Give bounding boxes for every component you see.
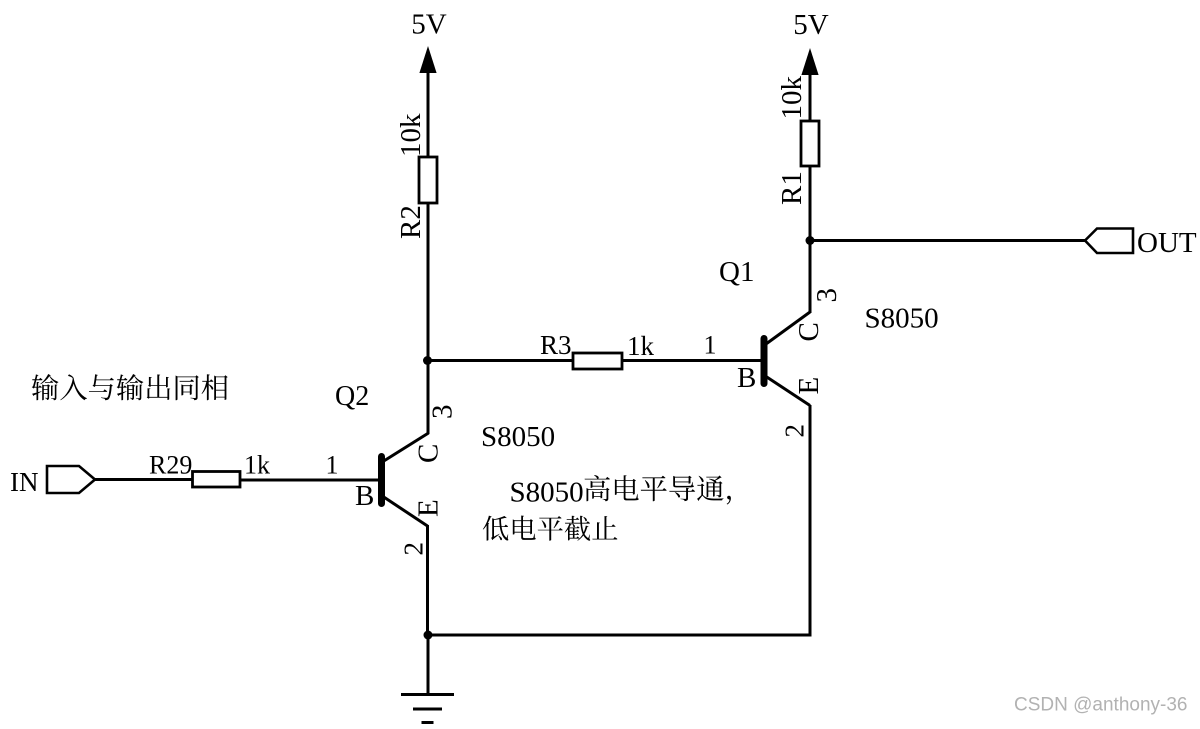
svg-text:R29: R29 <box>149 451 192 480</box>
svg-text:3: 3 <box>427 405 459 420</box>
svg-text:IN: IN <box>10 467 39 497</box>
svg-text:C: C <box>793 322 825 341</box>
svg-text:E: E <box>413 499 445 517</box>
svg-text:1: 1 <box>326 451 339 480</box>
svg-text:1k: 1k <box>627 331 655 361</box>
svg-text:5V: 5V <box>793 9 829 41</box>
svg-text:10k: 10k <box>776 76 808 120</box>
svg-text:S8050: S8050 <box>481 421 555 453</box>
svg-text:2: 2 <box>399 542 429 556</box>
svg-text:5V: 5V <box>411 9 447 41</box>
svg-text:CSDN @anthony-36: CSDN @anthony-36 <box>1014 695 1187 716</box>
svg-text:1: 1 <box>704 331 717 360</box>
svg-text:R2: R2 <box>395 205 427 239</box>
svg-text:OUT: OUT <box>1137 227 1197 259</box>
svg-text:1k: 1k <box>244 451 270 480</box>
svg-text:R1: R1 <box>776 171 808 205</box>
svg-text:B: B <box>355 480 374 512</box>
svg-text:2: 2 <box>780 424 810 438</box>
svg-text:E: E <box>793 377 825 395</box>
svg-text:S8050: S8050 <box>510 477 584 509</box>
svg-text:S8050: S8050 <box>865 303 939 335</box>
svg-text:R3: R3 <box>540 330 572 360</box>
svg-text:10k: 10k <box>395 113 427 157</box>
svg-text:Q1: Q1 <box>719 256 754 288</box>
svg-text:3: 3 <box>811 288 843 303</box>
svg-text:C: C <box>413 444 445 463</box>
svg-text:Q2: Q2 <box>335 381 369 412</box>
svg-text:B: B <box>737 362 756 394</box>
